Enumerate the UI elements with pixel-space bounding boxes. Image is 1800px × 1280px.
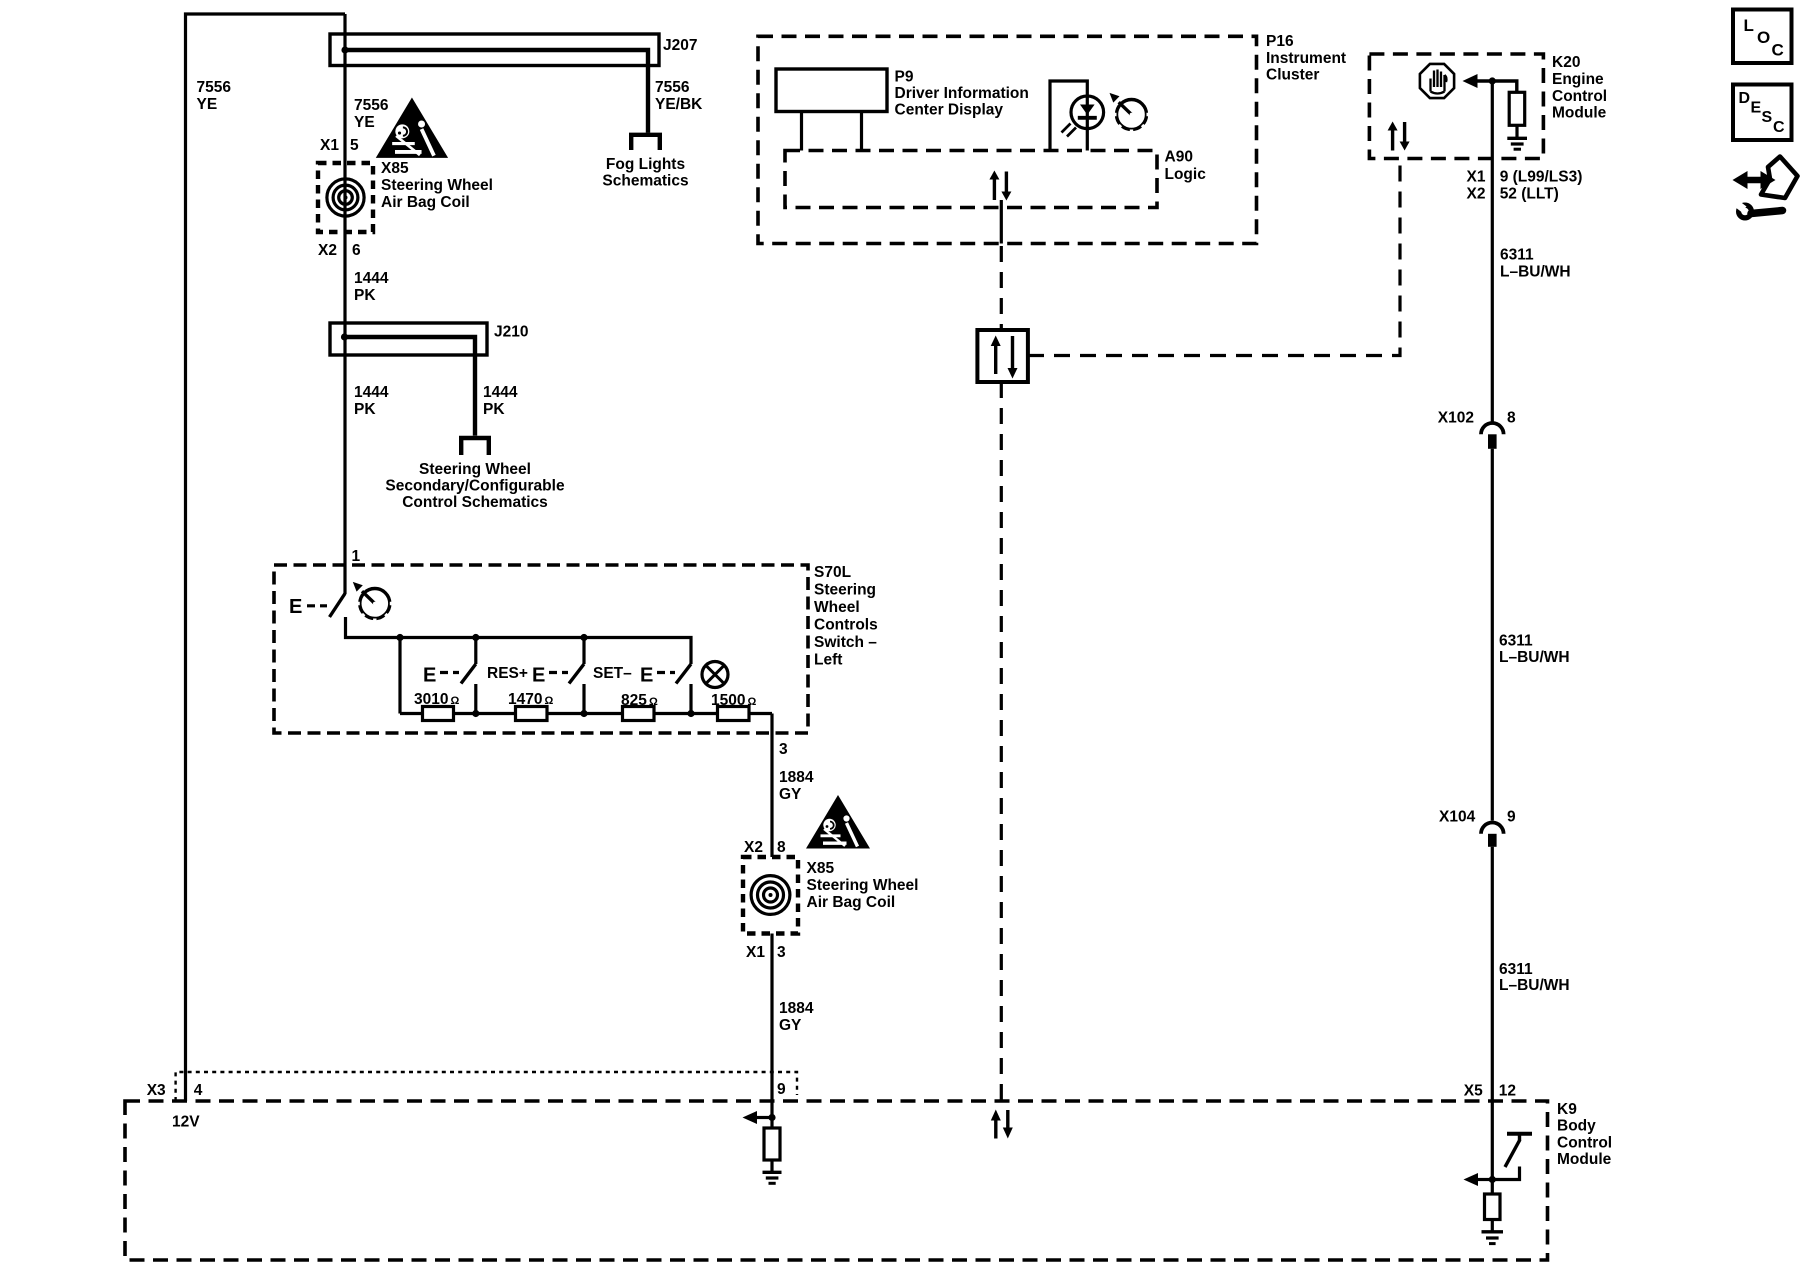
label wire 1884 GY (upper run): [779, 769, 814, 803]
svg-text:Ω: Ω: [451, 695, 460, 707]
svg-text:X2: X2: [1467, 186, 1486, 203]
svg-text:5: 5: [350, 137, 359, 154]
label wire 7556 YE/BK: [655, 79, 703, 113]
svg-text:K20: K20: [1552, 54, 1580, 71]
backlight LED symbol: [1050, 81, 1104, 151]
label Steering Wheel Secondary/Configurable Control Schematics: [385, 461, 565, 511]
pin labels X1 / 5 (upper airbag coil): [320, 137, 359, 154]
label SET-: [593, 665, 632, 682]
svg-text:Control Schematics: Control Schematics: [402, 494, 548, 511]
junction in J207: [341, 46, 348, 53]
svg-text:9 (L99/LS3): 9 (L99/LS3): [1500, 169, 1583, 186]
svg-text:1470: 1470: [508, 691, 542, 708]
svg-text:825: 825: [621, 692, 647, 709]
svg-text:9: 9: [1507, 809, 1516, 826]
svg-text:S: S: [1762, 109, 1773, 126]
pin labels X3 / 4: [147, 1082, 203, 1099]
wire 6311 L-BU/WH (ECM to X102): [1491, 81, 1494, 423]
svg-text:1444: 1444: [483, 384, 518, 401]
svg-text:Logic: Logic: [1165, 166, 1207, 183]
label S70L Steering Wheel Controls Switch - Left: [814, 564, 878, 669]
resistor 1470 ohm: [516, 707, 548, 721]
ladder feed wire: [398, 638, 401, 714]
svg-text:GY: GY: [779, 1017, 802, 1034]
BCM pin 12 switch T-bar contact: [1507, 1134, 1532, 1140]
connector X85 dashed box (upper): [318, 163, 373, 232]
switch 3 SET- (825 ohm): [640, 664, 691, 714]
serial data arrows in K9: [991, 1110, 1013, 1139]
svg-text:Ω: Ω: [649, 696, 658, 708]
label X85 Steering Wheel Air Bag Coil (upper): [381, 160, 493, 211]
label wire 1444 PK (above J210): [354, 270, 389, 304]
wire 7556 YE vertical to steering wheel: [343, 14, 346, 594]
svg-text:E: E: [640, 665, 653, 687]
serial data wire (dashed) splice box to BCM: [1000, 382, 1003, 1108]
resistor 825 ohm: [623, 707, 655, 721]
junction in J210: [341, 333, 348, 340]
svg-text:L–BU/WH: L–BU/WH: [1500, 264, 1571, 281]
svg-text:O: O: [1757, 28, 1770, 47]
pin label 9 (BCM): [777, 1081, 786, 1098]
label wire 1884 GY (lower run): [779, 1000, 814, 1034]
ECM resistor ground wire: [1515, 125, 1518, 137]
label X85 Steering Wheel Air Bag Coil (lower): [807, 860, 919, 911]
pin labels X2 / 6 (upper airbag coil): [318, 242, 361, 259]
svg-text:6311: 6311: [1500, 247, 1534, 264]
serial data wire (dashed) cluster to splice box: [1000, 246, 1003, 330]
svg-text:1884: 1884: [779, 769, 814, 786]
svg-text:6: 6: [352, 242, 361, 259]
svg-text:D: D: [1739, 90, 1751, 107]
svg-text:12V: 12V: [172, 1114, 200, 1131]
K20 engine control module dashed box: [1369, 54, 1543, 159]
bus stub to SET- switch: [582, 638, 585, 665]
svg-text:Control: Control: [1557, 1135, 1612, 1152]
svg-text:Center Display: Center Display: [895, 102, 1004, 119]
BCM pin 9 input wire: [770, 1101, 773, 1128]
label 1470 ohm: [508, 691, 554, 708]
svg-text:52 (LLT): 52 (LLT): [1500, 186, 1559, 203]
svg-text:X104: X104: [1439, 809, 1476, 826]
S70L steering wheel controls switch box: [274, 565, 808, 733]
resistor ladder wire: [400, 712, 772, 715]
label X102 / 8: [1438, 410, 1516, 427]
svg-text:Driver Information: Driver Information: [895, 85, 1029, 102]
svg-text:P16: P16: [1266, 33, 1294, 50]
svg-text:J207: J207: [663, 37, 697, 54]
airbag warning triangle (lower): [806, 795, 870, 849]
label J210: [494, 324, 528, 341]
BCM pin 12 signal arrow: [1464, 1173, 1493, 1186]
airbag coil X85 (lower spiral): [751, 876, 790, 915]
LOC reference icon: [1733, 10, 1792, 64]
svg-text:YE: YE: [354, 114, 375, 131]
cruise on/off switch S70L: [289, 594, 345, 619]
label 1500 ohm: [711, 692, 757, 709]
svg-text:Air Bag Coil: Air Bag Coil: [807, 894, 896, 911]
label J207: [663, 37, 697, 54]
junction ladder/RES+: [472, 710, 479, 717]
airbag warning triangle (upper): [376, 97, 448, 157]
svg-text:1884: 1884: [779, 1000, 814, 1017]
svg-text:3: 3: [779, 741, 788, 758]
serial data splice box: [977, 330, 1028, 382]
label P9 Driver Information Center Display: [895, 69, 1029, 119]
svg-text:X102: X102: [1438, 410, 1474, 427]
svg-text:Left: Left: [814, 652, 842, 669]
svg-text:Secondary/Configurable: Secondary/Configurable: [385, 478, 565, 495]
label wire 6311 L-BU/WH (middle): [1499, 633, 1570, 667]
pin labels X1 / 3 (lower airbag coil): [746, 944, 786, 961]
wire 1884 GY to BCM pin 9: [770, 934, 773, 1102]
svg-text:X5: X5: [1464, 1083, 1483, 1100]
svg-text:X1: X1: [746, 944, 765, 961]
svg-text:Controls: Controls: [814, 617, 878, 634]
pin 3 label (S70L output): [779, 741, 788, 758]
label K9 Body Control Module: [1557, 1101, 1612, 1168]
label wire 7556 YE (middle): [354, 97, 389, 131]
svg-text:7556: 7556: [354, 97, 389, 114]
junction bus/SET-: [580, 634, 587, 641]
serial data arrows in splice box: [991, 336, 1018, 379]
svg-text:X85: X85: [381, 160, 409, 177]
svg-text:L–BU/WH: L–BU/WH: [1499, 649, 1570, 666]
svg-text:YE: YE: [197, 96, 218, 113]
svg-text:E: E: [1751, 100, 1762, 117]
svg-text:4: 4: [194, 1082, 203, 1099]
label A90 Logic: [1165, 149, 1207, 184]
svg-text:8: 8: [777, 839, 786, 856]
svg-text:GY: GY: [779, 786, 802, 803]
BCM pin 9 signal arrow: [743, 1111, 773, 1124]
wire 7556 YE from top-left down to BCM pin 4: [186, 14, 346, 1101]
serial data arrows in K20: [1388, 122, 1410, 151]
label wire 7556 YE (left): [197, 79, 232, 113]
K9 body control module dashed box: [125, 1101, 1548, 1260]
BCM pull-down resistor (pin 9): [764, 1128, 780, 1160]
svg-text:6311: 6311: [1499, 633, 1533, 650]
switch 2 RES+ (1470 ohm): [532, 664, 584, 714]
label 3010 ohm: [414, 691, 460, 708]
label wire 6311 L-BU/WH (top): [1500, 247, 1571, 281]
A90 logic dashed box: [785, 151, 1157, 208]
P9 driver information center display box: [776, 69, 887, 112]
svg-text:Control: Control: [1552, 88, 1607, 105]
svg-text:7556: 7556: [655, 79, 690, 96]
label Fog Lights Schematics: [602, 156, 688, 190]
svg-text:P9: P9: [895, 69, 914, 86]
connector J207: [330, 34, 659, 66]
ECM ground: [1507, 138, 1527, 149]
DESC reference icon: [1733, 85, 1792, 141]
svg-text:Switch –: Switch –: [814, 634, 877, 651]
svg-text:K9: K9: [1557, 1101, 1577, 1118]
wire 6311 L-BU/WH (X102 to X104): [1491, 449, 1494, 821]
inline connector X104 pin 9: [1481, 823, 1504, 847]
label wire 1444 PK (right, below J210): [483, 384, 518, 418]
svg-text:L–BU/WH: L–BU/WH: [1499, 977, 1570, 994]
svg-text:Instrument: Instrument: [1266, 50, 1346, 67]
switch output wire and bus: [346, 617, 692, 664]
P16 instrument cluster dashed box: [758, 36, 1257, 243]
switch 1 (3010 ohm): [423, 664, 476, 714]
svg-text:YE/BK: YE/BK: [655, 96, 703, 113]
svg-text:Ω: Ω: [748, 696, 757, 708]
junction ladder/sw3: [687, 710, 694, 717]
svg-text:Module: Module: [1557, 1151, 1612, 1168]
BCM pull-down resistor (pin 12): [1485, 1194, 1501, 1220]
svg-text:1444: 1444: [354, 270, 389, 287]
svg-text:L: L: [1744, 16, 1754, 35]
svg-text:9: 9: [777, 1081, 786, 1098]
pin labels X5 / 12: [1464, 1083, 1516, 1100]
resistor 3010 ohm: [423, 707, 454, 721]
pin labels X2 / 8 (lower airbag coil): [744, 839, 786, 856]
label wire 6311 L-BU/WH (bottom): [1499, 961, 1570, 994]
stop lamp hand icon: [1420, 64, 1454, 98]
svg-text:Wheel: Wheel: [814, 599, 860, 616]
resistor 1500 ohm: [718, 707, 750, 721]
svg-text:Steering Wheel: Steering Wheel: [381, 177, 493, 194]
junction BCM pin 9: [768, 1114, 775, 1121]
ECM pull-up resistor: [1509, 92, 1525, 125]
svg-text:X85: X85: [807, 860, 835, 877]
gauge icon (cluster): [1110, 93, 1153, 136]
svg-text:1444: 1444: [354, 384, 389, 401]
svg-text:X2: X2: [318, 242, 337, 259]
svg-text:C: C: [1773, 119, 1785, 136]
svg-text:PK: PK: [483, 401, 505, 418]
svg-text:C: C: [1772, 41, 1784, 60]
connector J210: [330, 323, 487, 355]
label wire 1444 PK (left, below J210): [354, 384, 389, 418]
label RES+: [487, 665, 528, 682]
svg-text:Module: Module: [1552, 105, 1607, 122]
svg-text:Engine: Engine: [1552, 71, 1604, 88]
serial data wire below A90 (solid stub): [1000, 200, 1003, 244]
svg-text:X3: X3: [147, 1082, 166, 1099]
svg-text:X1: X1: [1467, 169, 1486, 186]
svg-text:1: 1: [352, 548, 361, 565]
connector X3 face (dotted): [176, 1072, 797, 1101]
BCM pin 12 switch blade: [1492, 1140, 1520, 1180]
cruise control gauge icon: [353, 582, 396, 625]
svg-text:Steering Wheel: Steering Wheel: [419, 461, 531, 478]
svg-text:Schematics: Schematics: [602, 173, 688, 190]
illumination lamp: [702, 662, 728, 688]
svg-text:PK: PK: [354, 401, 376, 418]
junction ECM: [1489, 77, 1496, 84]
BCM resistor ground wire (pin 9): [770, 1160, 773, 1171]
svg-text:SET–: SET–: [593, 665, 632, 682]
svg-text:Cluster: Cluster: [1266, 67, 1319, 84]
svg-text:E: E: [532, 665, 545, 687]
P9 pin wire right: [860, 112, 863, 151]
junction bus/RES+: [472, 634, 479, 641]
label 12V: [172, 1114, 200, 1131]
svg-text:Air Bag Coil: Air Bag Coil: [381, 194, 470, 211]
svg-text:8: 8: [1507, 410, 1516, 427]
serial data arrows in A90: [989, 171, 1011, 201]
off-page reference: steering wheel secondary control schematics: [459, 438, 491, 455]
svg-text:A90: A90: [1165, 149, 1193, 166]
airbag coil X85 (upper spiral): [327, 179, 364, 216]
svg-text:1500: 1500: [711, 692, 745, 709]
label P16 Instrument Cluster: [1266, 33, 1346, 84]
svg-text:PK: PK: [354, 287, 376, 304]
label K20 Engine Control Module: [1552, 54, 1607, 122]
svg-text:S70L: S70L: [814, 564, 851, 581]
svg-text:12: 12: [1499, 1083, 1516, 1100]
BCM ground (pin 9): [763, 1172, 782, 1183]
bus stub to RES+ switch: [474, 638, 477, 665]
wire 1884 GY from ladder to lower airbag coil: [770, 714, 773, 858]
serial data wire (dashed) splice box to ECM: [1028, 159, 1400, 356]
inline connector X102 pin 8: [1481, 423, 1504, 449]
svg-text:Steering: Steering: [814, 582, 876, 599]
svg-text:Fog Lights: Fog Lights: [606, 156, 685, 173]
wire 6311 L-BU/WH (X104 to BCM): [1491, 847, 1494, 1194]
label X104 / 9: [1439, 809, 1516, 826]
svg-text:Ω: Ω: [545, 695, 554, 707]
junction bus/ladder: [396, 634, 403, 641]
wire 1444 PK branch through J210: [345, 337, 476, 436]
pin labels X1 9 (L99/LS3) / X2 52 (LLT): [1467, 169, 1583, 203]
svg-text:6311: 6311: [1499, 961, 1533, 978]
svg-text:E: E: [423, 665, 436, 687]
svg-text:J210: J210: [494, 324, 528, 341]
harness repair icon: [1731, 157, 1798, 221]
pin 1 label (S70L): [352, 548, 361, 565]
BCM resistor ground wire (pin 12): [1491, 1220, 1494, 1231]
off-page reference: fog lights schematics: [629, 135, 662, 150]
svg-text:Steering Wheel: Steering Wheel: [807, 877, 919, 894]
junction ladder/SET-: [580, 710, 587, 717]
BCM ground (pin 12): [1482, 1232, 1504, 1244]
svg-text:RES+: RES+: [487, 665, 528, 682]
junction BCM pin 12: [1489, 1176, 1496, 1183]
P9 pin wire left: [800, 112, 803, 151]
svg-text:7556: 7556: [197, 79, 232, 96]
svg-text:3010: 3010: [414, 691, 448, 708]
connector X85 dashed box (lower): [743, 857, 798, 934]
svg-text:X2: X2: [744, 839, 763, 856]
svg-text:Body: Body: [1557, 1118, 1596, 1135]
svg-text:X1: X1: [320, 137, 339, 154]
svg-text:3: 3: [777, 944, 786, 961]
ECM signal arrow: [1463, 74, 1517, 92]
wire 7556 YE/BK through J207 to fog lights: [345, 50, 648, 133]
label 825 ohm: [621, 692, 658, 709]
svg-text:E: E: [289, 596, 302, 618]
